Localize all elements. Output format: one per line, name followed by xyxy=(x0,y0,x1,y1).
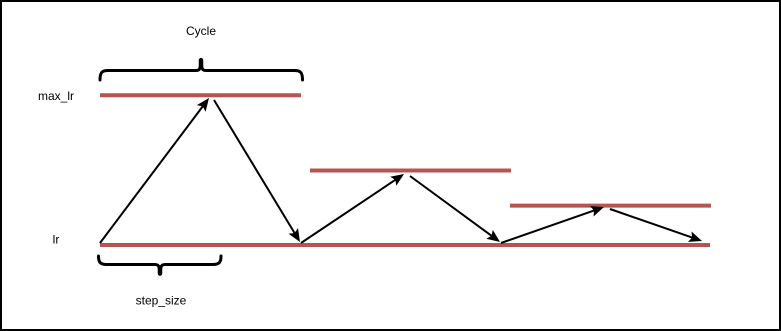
label lr xyxy=(53,233,60,247)
svg-text:lr: lr xyxy=(53,233,60,247)
arrow rise 1 xyxy=(100,98,209,243)
arrow fall 2 xyxy=(410,176,500,242)
plateau 3 level line xyxy=(510,204,711,208)
svg-text:Cycle: Cycle xyxy=(186,24,216,38)
arrow rise 3 xyxy=(501,206,604,243)
arrow final xyxy=(610,209,702,242)
arrow fall 1 xyxy=(214,100,300,242)
arrow rise 2 xyxy=(301,174,404,243)
max_lr level line xyxy=(100,93,301,97)
svg-text:step_size: step_size xyxy=(136,294,187,308)
lr baseline xyxy=(100,243,710,247)
brace step_size xyxy=(99,256,222,274)
label step_size xyxy=(136,294,187,308)
label Cycle xyxy=(186,24,216,38)
brace Cycle xyxy=(100,59,303,80)
plateau 2 level line xyxy=(310,169,511,173)
label max_lr xyxy=(38,89,74,103)
svg-text:max_lr: max_lr xyxy=(38,89,74,103)
